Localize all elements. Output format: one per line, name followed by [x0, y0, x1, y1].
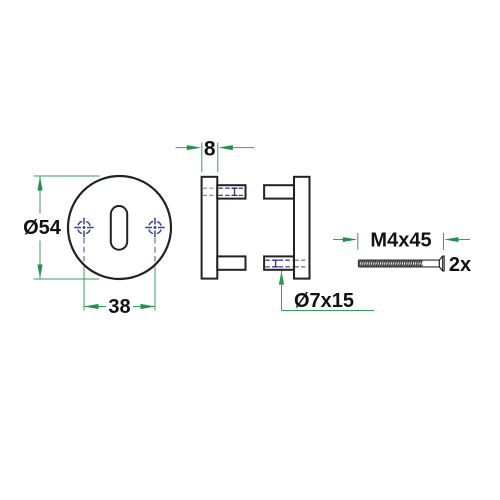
dimension 8 left extension line — [201, 143, 203, 173]
dimension D54 arrowhead up — [37, 177, 42, 191]
dimension 38 arrowhead right — [141, 304, 156, 309]
dimension 8 arrowhead left — [187, 145, 202, 150]
screw S1 countersunk head — [439, 256, 444, 271]
hole H1 centerlines — [74, 218, 93, 237]
dimension 38 line left segment — [84, 306, 106, 308]
side view left: top peg B1 — [217, 185, 245, 198]
svg-text:Ø54: Ø54 — [23, 217, 62, 239]
leader D7x15 arrowhead — [279, 271, 284, 285]
peg B4 thread hole dashed lines (blue) — [265, 260, 292, 267]
dimension M4x45 right tail — [458, 239, 470, 241]
side view left: bottom peg B2 — [217, 256, 245, 269]
peg B4 thread end line — [273, 260, 279, 267]
screw S1 threaded shank hatch — [358, 260, 422, 266]
dimension 38 line right segment — [133, 306, 155, 308]
svg-text:2x: 2x — [449, 254, 471, 276]
screw S1 head face line — [442, 256, 444, 271]
peg B1 thread hole dashed lines (blue) — [219, 188, 245, 195]
rosette front view: outer circle — [68, 176, 171, 279]
dimension 8 right extension line — [217, 143, 219, 173]
side view right: bottom peg hidden lines through plate (gray) — [295, 260, 308, 267]
side view right: plate P2 — [294, 177, 310, 279]
side view left: plate P1 — [202, 177, 218, 279]
side view left: top peg hidden lines through plate (gray) — [203, 188, 217, 195]
svg-text:Ø7x15: Ø7x15 — [294, 290, 354, 312]
hole H1 projection dashed segment — [83, 238, 85, 263]
dimension M4x45 right extension line — [443, 233, 445, 250]
dimension M4x45 arrowhead right — [444, 237, 459, 242]
hole H1 extension line (green) — [83, 267, 85, 311]
dimension 8 arrowhead right — [218, 145, 233, 150]
dimension M4x45 left extension line — [357, 233, 359, 250]
leader D7x15 vertical line — [281, 271, 283, 311]
hole H1 (left) dashed circle — [78, 221, 91, 234]
keyhole slot — [111, 206, 127, 250]
dimension D54 bottom extension line — [34, 278, 100, 280]
dimension D54 arrowhead down — [37, 265, 42, 279]
dimension M4x45 left tail — [333, 239, 344, 241]
dimension 38 arrowhead left — [84, 304, 99, 309]
dimension D54 line lower segment — [39, 241, 41, 279]
hole H2 (right) dashed circle — [149, 221, 162, 234]
screw S1 shank outline — [358, 260, 439, 267]
svg-text:38: 38 — [108, 296, 130, 318]
svg-text:M4x45: M4x45 — [370, 230, 431, 252]
svg-text:8: 8 — [204, 137, 216, 160]
side view right: bottom peg B4 — [264, 256, 294, 269]
dimension D54 top extension line — [34, 175, 100, 177]
dimension 8 left tail — [176, 147, 189, 149]
hole H2 centerlines — [145, 218, 164, 237]
side view right: top peg B3 — [264, 185, 294, 198]
dimension D54 line upper segment — [39, 177, 41, 214]
peg B1 thread end line — [232, 188, 238, 195]
hole H2 projection dashed segment — [154, 238, 156, 263]
dimension M4x45 arrowhead left — [343, 237, 358, 242]
dimension 8 right tail — [232, 147, 254, 149]
hole H2 extension line (green) — [154, 267, 156, 311]
leader D7x15 horizontal line — [282, 310, 375, 312]
